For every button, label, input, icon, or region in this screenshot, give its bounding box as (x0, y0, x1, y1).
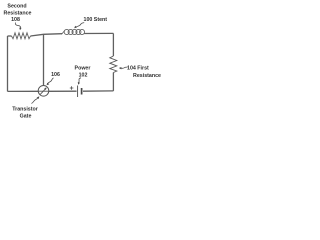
leader arrow from 100 to coil (75, 23, 84, 28)
svg-text:108: 108 (11, 17, 20, 23)
wire bottom middle segment (battery to transistor) (49, 90, 77, 92)
transistor internal diagonal with arrow (40, 88, 46, 94)
leader arrow from 102 to battery (79, 78, 81, 83)
svg-text:Second: Second (7, 4, 26, 10)
leader arrow from 108 to resistor (15, 23, 20, 30)
svg-text:Transistor: Transistor (12, 107, 38, 113)
leader arrow from Transistor Gate to circle (32, 97, 39, 103)
resistor R108 (second resistance, horizontal zigzag) (12, 33, 31, 39)
svg-text:Gate: Gate (20, 114, 32, 120)
wire right vertical upper (112, 33, 114, 56)
wire right vertical lower (112, 73, 114, 91)
wire middle vertical (gate) (43, 34, 45, 85)
transistor Q106 circle (38, 86, 49, 97)
svg-text:Resistance: Resistance (4, 11, 32, 17)
wire bottom right segment (83, 90, 113, 92)
plus sign at battery (70, 86, 74, 90)
wire top left segment (8, 35, 12, 37)
wire bottom left segment (8, 90, 39, 92)
wire top right segment (84, 32, 113, 34)
battery V102 short thick plate (81, 88, 83, 95)
svg-text:100 Stent: 100 Stent (84, 17, 108, 23)
resistor R104 (first resistance, vertical zigzag) (110, 56, 117, 73)
leader arrow from 106 to transistor (47, 78, 53, 84)
inductor coil 100 (stent) (62, 29, 85, 34)
svg-text:102: 102 (79, 73, 88, 79)
battery V102 long thin plate (77, 86, 79, 98)
transistor internal chord (38, 90, 48, 92)
leader arrow from 104 to resistor (121, 67, 127, 68)
wire top middle segment (31, 34, 63, 36)
svg-text:Resistance: Resistance (133, 73, 161, 79)
wire left vertical (7, 36, 9, 91)
svg-text:106: 106 (51, 72, 60, 78)
svg-text:104 First: 104 First (127, 65, 149, 71)
svg-text:Power: Power (75, 66, 91, 72)
